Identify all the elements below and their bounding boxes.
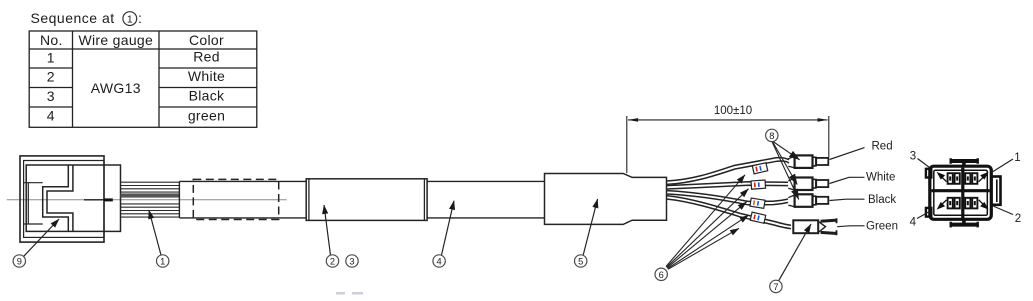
leader and balloon 9 bbox=[24, 219, 59, 256]
braid dashed box bbox=[193, 179, 278, 219]
face left bumps bbox=[926, 169, 931, 178]
connector P9 body bbox=[26, 165, 120, 231]
face top latch bbox=[950, 159, 979, 163]
wire W2 bbox=[667, 182, 789, 189]
leader and balloon 2 bbox=[324, 205, 331, 255]
svg-text:1: 1 bbox=[127, 14, 133, 26]
wire bundle 1 bbox=[121, 182, 180, 217]
dimension 100+-10 bbox=[627, 116, 829, 173]
connector P9 housing flange outer bbox=[20, 156, 104, 242]
face right tab bbox=[991, 177, 1000, 205]
svg-text:Black: Black bbox=[189, 88, 225, 104]
face corner arrow wedges bbox=[937, 172, 989, 210]
wire seal marker bbox=[84, 199, 104, 201]
svg-text:5: 5 bbox=[578, 257, 583, 267]
centerline bbox=[7, 199, 287, 201]
svg-text:8: 8 bbox=[769, 131, 774, 141]
svg-text:White: White bbox=[866, 171, 895, 183]
svg-text:9: 9 bbox=[17, 257, 22, 267]
sleeve label S1 bbox=[752, 163, 767, 174]
wire W1 bbox=[667, 158, 790, 185]
leaders and balloon 6 bbox=[666, 175, 749, 269]
svg-text:7: 7 bbox=[773, 282, 778, 292]
sleeve label S4 bbox=[750, 212, 765, 223]
svg-text:Red: Red bbox=[872, 141, 893, 153]
svg-text:100±10: 100±10 bbox=[714, 105, 752, 117]
mating connector face view bbox=[926, 158, 1001, 227]
connector P9 left pocket bbox=[24, 183, 43, 224]
svg-text:green: green bbox=[188, 107, 225, 123]
leaders and balloon 8 bbox=[772, 142, 800, 200]
leader and balloon 4 bbox=[442, 201, 455, 255]
shrink tube 2-3 bbox=[306, 179, 427, 221]
face terminal cells bbox=[948, 173, 978, 208]
svg-text:3: 3 bbox=[349, 257, 354, 267]
terminal T1 bbox=[788, 155, 828, 168]
svg-text:4: 4 bbox=[437, 257, 442, 267]
svg-text::: : bbox=[138, 10, 142, 26]
table wire sequence bbox=[29, 31, 257, 127]
terminal T4 fork bbox=[793, 218, 837, 235]
cable jacket section B bbox=[427, 181, 544, 218]
leader and balloon 7 bbox=[779, 224, 811, 281]
svg-text:1: 1 bbox=[47, 50, 55, 66]
balloon 3 bbox=[346, 255, 358, 267]
svg-text:4: 4 bbox=[910, 216, 917, 228]
face body outline bbox=[930, 166, 992, 219]
cable jacket section A bbox=[179, 181, 306, 218]
wire bundle dark band bbox=[121, 193, 180, 197]
svg-text:Color: Color bbox=[189, 32, 224, 48]
svg-text:1: 1 bbox=[1014, 152, 1020, 164]
wire W4 bbox=[667, 196, 792, 229]
svg-text:2: 2 bbox=[47, 69, 55, 85]
terminal T3 bbox=[788, 194, 828, 207]
connector P9 cavity outer profile bbox=[43, 165, 69, 231]
connector P9 cavity inner profile bbox=[47, 165, 73, 231]
terminal T2 bbox=[788, 178, 828, 191]
title Sequence at (1): bbox=[31, 10, 142, 26]
svg-text:6: 6 bbox=[659, 270, 664, 280]
face inner outline bbox=[934, 170, 988, 215]
face mid vertical wall bbox=[961, 168, 964, 218]
sleeve label S3 bbox=[750, 198, 765, 208]
leader and balloon 5 bbox=[583, 199, 597, 255]
face cell ticks bbox=[949, 176, 976, 205]
svg-text:White: White bbox=[188, 68, 225, 84]
svg-text:Black: Black bbox=[868, 194, 896, 206]
table text bbox=[40, 32, 225, 124]
svg-text:3: 3 bbox=[910, 151, 916, 163]
svg-text:3: 3 bbox=[47, 88, 55, 104]
svg-text:2: 2 bbox=[330, 257, 335, 267]
wire W3 bbox=[667, 191, 789, 205]
faint cropped marks at bottom bbox=[336, 292, 345, 295]
shrink tube 5 bbox=[545, 174, 667, 225]
svg-text:2: 2 bbox=[1015, 213, 1021, 225]
sleeve label S2 bbox=[751, 180, 766, 189]
svg-text:4: 4 bbox=[47, 108, 55, 124]
svg-text:Wire gauge: Wire gauge bbox=[79, 32, 154, 48]
connector P9 flange inner border bbox=[24, 161, 104, 238]
svg-text:No.: No. bbox=[40, 32, 63, 48]
svg-text:1: 1 bbox=[160, 257, 165, 267]
face bottom latch bbox=[950, 223, 979, 227]
svg-text:AWG13: AWG13 bbox=[91, 80, 141, 96]
svg-text:Red: Red bbox=[193, 49, 220, 65]
leader and balloon 1 bbox=[149, 210, 161, 255]
svg-text:Green: Green bbox=[866, 221, 898, 233]
face mid horizontal wall bbox=[932, 189, 990, 192]
svg-text:Sequence at: Sequence at bbox=[31, 10, 115, 26]
